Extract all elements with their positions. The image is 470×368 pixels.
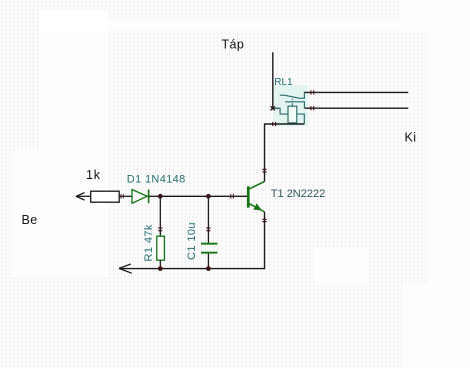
diode D1 triangle (132, 190, 147, 204)
relay coil top pin (291, 103, 293, 106)
wire relay output 2 (305, 107, 409, 109)
wire R1 bottom (159, 260, 161, 268)
node dot base-left (158, 194, 163, 199)
pin ticks relay bottom (273, 122, 276, 126)
node dot base-mid (206, 194, 211, 199)
transistor T1 collector lead (249, 181, 264, 189)
svg-text:R1 47k: R1 47k (143, 224, 155, 261)
relay coil (288, 106, 297, 123)
plain white redraw patch top-left (39, 10, 108, 152)
wire Tap vertical (272, 52, 274, 107)
pin ticks collector (262, 169, 266, 172)
pin ticks base (231, 194, 234, 198)
plain white redraw patch left (around Be) (12, 150, 108, 277)
relay right feed (297, 114, 305, 124)
wire relay bottom to collector corner (265, 123, 305, 125)
pin ticks output 1 (311, 90, 314, 94)
wire R1 top (159, 196, 161, 236)
plain white band top (39, 20, 411, 30)
svg-text:RL1: RL1 (274, 77, 293, 88)
plain white region right edge (428, 0, 470, 290)
pin ticks output 2 (311, 106, 314, 110)
wire C1 top (207, 196, 209, 242)
relay RL1 NC line (285, 102, 304, 108)
wire base rail (160, 195, 247, 197)
transistor T1 emitter arrow (253, 203, 262, 210)
pin ticks C1 (206, 228, 210, 231)
wire C1 bottom (207, 254, 209, 269)
svg-text:T1 2N2222: T1 2N2222 (271, 188, 325, 200)
capacitor C1 bottom plate (201, 252, 217, 254)
arrow bottom-left open head (119, 264, 132, 273)
plain white region bottom-right (403, 285, 470, 368)
relay RL1 contact (274, 92, 306, 124)
pin ticks R1 (158, 228, 162, 231)
relay left feed (274, 108, 288, 114)
wire arrow to 1k resistor (76, 195, 91, 197)
wire diode to node (149, 195, 161, 197)
transistor T1 emitter lead (249, 204, 264, 212)
plain white corner top-right (400, 0, 470, 31)
svg-text:1k: 1k (86, 168, 101, 182)
transistor T1 base bar (247, 186, 250, 207)
relay link dashes (291, 99, 293, 100)
wire collector drop (264, 123, 266, 181)
relay selection highlight (274, 85, 309, 127)
wire emitter drop (264, 212, 266, 269)
svg-text:C1 10u: C1 10u (186, 222, 198, 260)
plain white patch center-bottom (314, 247, 367, 285)
wire relay output 1 (305, 91, 409, 93)
pin ticks diode anode (121, 194, 123, 198)
capacitor C1 top plate (201, 243, 217, 245)
wire 1k to diode (119, 195, 132, 197)
arrow top-left open head (76, 193, 85, 201)
svg-text:D1 1N4148: D1 1N4148 (127, 173, 186, 185)
wire junction to relay (273, 107, 279, 109)
svg-text:Be: Be (22, 213, 38, 227)
diode D1 cathode bar (148, 190, 150, 204)
resistor 1k body (91, 191, 120, 202)
node junction X at relay feed (271, 106, 275, 110)
pin ticks emitter (262, 219, 266, 221)
node dot bottom-mid (206, 266, 211, 271)
svg-text:Táp: Táp (222, 38, 245, 52)
wire bottom rail (119, 268, 264, 270)
svg-text:Ki: Ki (405, 130, 417, 144)
resistor R1 body (157, 236, 165, 260)
node dot bottom-left (158, 266, 163, 271)
